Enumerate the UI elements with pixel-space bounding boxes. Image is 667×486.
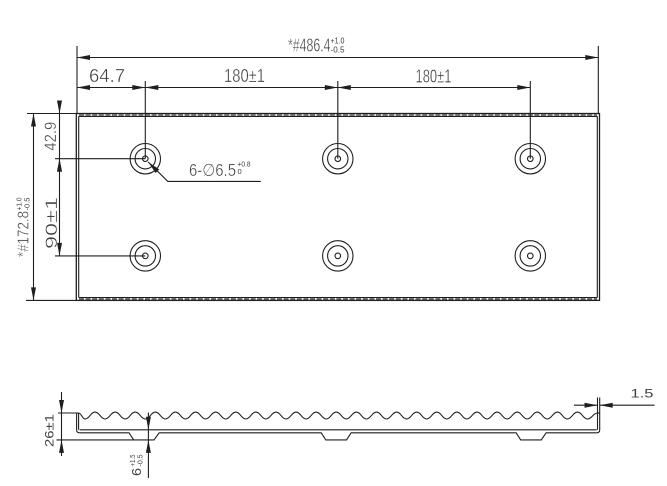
section left wall <box>77 413 80 433</box>
hole A3 (top-right) <box>515 144 545 174</box>
extension line right (x=598.3) for 486.4 <box>597 46 599 114</box>
dim text 90+-1 (rotated) <box>42 197 61 249</box>
hole callout text 6-D6.5 with tolerance <box>189 160 251 181</box>
hole A2 (top-middle) <box>323 144 353 174</box>
plate outline inner right wall line <box>596 116 598 297</box>
svg-text:42.9: 42.9 <box>41 122 60 151</box>
svg-text:-0.5: -0.5 <box>331 45 345 55</box>
svg-text:180±1: 180±1 <box>224 65 265 86</box>
hole B1 (bottom-left) <box>130 241 160 271</box>
dimension line 26 vertical <box>61 392 63 456</box>
serrated bottom edge dashes <box>79 298 597 300</box>
svg-text:-0.5: -0.5 <box>23 198 32 211</box>
extension lines for 1.5 wall thickness <box>597 398 599 414</box>
svg-text:6-∅6.5: 6-∅6.5 <box>189 160 236 180</box>
hole A1 (top-left) <box>130 144 160 174</box>
dimension line 64.7 and 180 and 180 <box>77 87 530 89</box>
svg-text:+1.5: +1.5 <box>130 454 137 466</box>
svg-text:*#172.8: *#172.8 <box>16 211 33 257</box>
svg-text:90±1: 90±1 <box>42 197 61 249</box>
svg-text:-0.5: -0.5 <box>138 454 145 466</box>
dimension line 1.5 left part <box>574 404 598 406</box>
extension line section top-left (y=413) <box>58 412 77 414</box>
hole B3 (bottom-right) <box>515 241 545 271</box>
arrowheads 64.7 <box>77 85 90 90</box>
dim text 6 with tolerance (rotated) <box>129 454 145 476</box>
centerline hole row 2 <box>55 255 145 257</box>
extension line bottom-left corner (y=300.4) <box>26 299 76 301</box>
svg-text:180±1: 180±1 <box>416 66 452 87</box>
svg-text:64.7: 64.7 <box>89 65 125 86</box>
arrowheads 90 (inside) <box>57 159 62 171</box>
section corrugated (wavy) top surface <box>79 412 598 419</box>
arrowhead hole leader <box>148 162 159 173</box>
section inner bottom line <box>80 429 597 431</box>
extension line hole col 3 <box>529 81 531 159</box>
dim text 26+-1 (rotated) <box>43 414 57 447</box>
section right wall <box>597 413 600 433</box>
extension line section bottom (y=440.4) <box>57 439 134 441</box>
plate inner top edge <box>79 115 598 117</box>
leader line for hole callout <box>148 162 261 181</box>
arrowheads 180 first <box>145 85 158 90</box>
section outer bottom with feet <box>80 433 597 440</box>
hole B2 (bottom-middle) <box>323 241 353 271</box>
extension line top-left corner (y=113.5) <box>27 113 76 115</box>
plate outline inner left wall line <box>78 116 80 297</box>
dimension line 172.8 vertical <box>33 114 35 301</box>
svg-text:0: 0 <box>238 167 242 176</box>
extension line left (x=77) for 486.4 / 64.7 <box>76 46 78 114</box>
plate outline outer <box>76 114 599 301</box>
arrowheads 172.8 <box>31 114 36 127</box>
svg-text:26±1: 26±1 <box>43 414 57 447</box>
dim text 172.8 with tolerance (rotated) <box>15 198 33 258</box>
plate inner bottom edge <box>79 297 598 299</box>
arrowheads 42.9 (outside) <box>57 101 62 114</box>
arrowheads 6 (outside) <box>146 417 151 430</box>
arrowheads 1.5 (outside) <box>585 403 598 408</box>
extension line hole col 2 <box>337 81 339 159</box>
dim text 42.9 (rotated) <box>41 122 60 151</box>
svg-text:1.5: 1.5 <box>631 389 654 401</box>
serrated top edge dashes <box>79 114 597 116</box>
svg-text:6: 6 <box>129 468 144 476</box>
dim text 486.4 with tolerance <box>288 35 345 56</box>
extension line hole col 1 <box>144 81 146 159</box>
dimension line 42.9 / 90 vertical <box>59 102 61 256</box>
arrowheads 26 (outside) <box>59 400 64 413</box>
dimension line 1.5 right part <box>600 404 655 406</box>
arrowheads 486.4 <box>77 55 90 60</box>
dimension line 486.4 <box>77 57 598 59</box>
dimension line 6 vertical <box>147 413 149 479</box>
arrowheads 180 second <box>338 85 351 90</box>
centerline hole row 1 <box>55 158 145 160</box>
svg-text:*#486.4: *#486.4 <box>288 35 331 56</box>
